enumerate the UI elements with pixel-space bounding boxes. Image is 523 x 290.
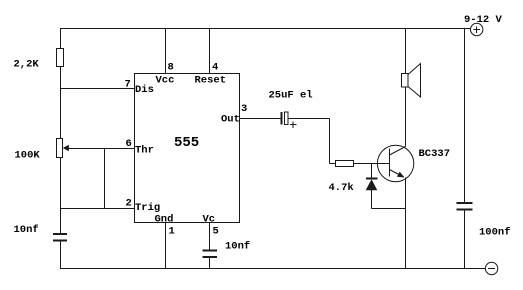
wire left rail R1 to pot xyxy=(60,67,62,139)
wire bottom ground rail xyxy=(60,268,485,270)
svg-text:7: 7 xyxy=(125,79,131,91)
svg-text:2: 2 xyxy=(126,198,132,210)
wire top supply rail xyxy=(60,28,471,30)
diode D1 triangle xyxy=(366,179,378,190)
svg-text:BC337: BC337 xyxy=(419,148,451,160)
wire pin1 Gnd to ground rail xyxy=(165,223,167,269)
wire left rail pot to C1 xyxy=(60,158,62,234)
wire R3 to base xyxy=(354,163,390,165)
svg-text:10nf: 10nf xyxy=(225,241,250,253)
potentiometer 100K wiper arrow xyxy=(63,145,69,152)
wire top rail to speaker xyxy=(405,29,407,74)
svg-text:Dis: Dis xyxy=(135,84,154,96)
svg-text:100nf: 100nf xyxy=(479,227,511,239)
wire link Thr to Trig xyxy=(104,149,106,209)
power terminal minus sign xyxy=(488,268,495,270)
wire C1 to ground rail xyxy=(60,241,62,269)
wire diode to emitter xyxy=(372,208,406,210)
svg-text:555: 555 xyxy=(174,135,199,151)
svg-text:100K: 100K xyxy=(15,150,41,162)
power terminal minus circle xyxy=(485,262,497,274)
transistor Q1 emitter diagonal xyxy=(390,170,404,178)
svg-text:Thr: Thr xyxy=(135,145,154,157)
diode D1 cathode bar xyxy=(366,178,378,180)
svg-text:4: 4 xyxy=(212,62,218,74)
capacitor 25uF plus sign xyxy=(290,121,297,128)
svg-text:6: 6 xyxy=(126,138,132,150)
svg-text:5: 5 xyxy=(213,226,219,238)
capacitor 100nf plate bottom xyxy=(457,209,473,211)
capacitor 100nf plate top xyxy=(457,202,473,204)
svg-text:Reset: Reset xyxy=(195,75,227,87)
capacitor 10nf (pin5) plate bottom xyxy=(203,256,218,258)
transistor Q1 emitter arrow xyxy=(397,172,405,178)
speaker body xyxy=(402,74,409,88)
potentiometer 100K body xyxy=(57,139,63,158)
svg-text:2,2K: 2,2K xyxy=(14,59,40,71)
wire pin2 Trig xyxy=(61,208,135,210)
svg-text:Gnd: Gnd xyxy=(155,214,174,226)
resistor 2,2K xyxy=(57,49,64,67)
wire right rail upper xyxy=(464,29,466,203)
svg-text:Vcc: Vcc xyxy=(156,75,175,87)
transistor Q1 collector diagonal xyxy=(390,147,406,156)
wire pin5 Vc to C2 xyxy=(209,223,211,251)
svg-text:25uF el: 25uF el xyxy=(269,90,313,102)
wire pin8 Vcc xyxy=(165,29,167,74)
svg-text:Vc: Vc xyxy=(203,214,216,226)
svg-text:1: 1 xyxy=(169,226,175,238)
transistor Q1 circle xyxy=(377,145,413,181)
svg-text:4.7k: 4.7k xyxy=(329,182,354,194)
wire wiper to pin6 Thr xyxy=(69,148,135,150)
wire collector up to speaker xyxy=(405,87,407,147)
wire pin4 Reset xyxy=(209,29,211,74)
capacitor 25uF plate left xyxy=(281,112,283,125)
transistor Q1 base bar xyxy=(389,149,391,177)
power terminal plus circle xyxy=(471,23,483,35)
wire emitter to ground rail xyxy=(405,178,407,269)
IC U1 555 timer body xyxy=(135,74,240,223)
power terminal plus sign xyxy=(474,26,481,33)
wire left rail segment above R1 xyxy=(60,29,62,49)
capacitor 10nf (timing) plate top xyxy=(53,233,67,235)
svg-text:3: 3 xyxy=(241,103,247,115)
diode D1 bottom wire xyxy=(371,190,373,209)
diode D1 anode wire xyxy=(371,164,373,179)
wire pin3 Out xyxy=(240,118,282,120)
capacitor 10nf (pin5) plate top xyxy=(203,250,218,252)
svg-text:10nf: 10nf xyxy=(14,224,39,236)
svg-text:Trig: Trig xyxy=(135,202,160,214)
wire pin7 Dis xyxy=(61,88,135,90)
svg-text:Out: Out xyxy=(221,114,240,126)
wire to R3 left xyxy=(330,163,336,165)
capacitor 10nf (timing) plate bottom xyxy=(53,240,67,242)
svg-text:8: 8 xyxy=(168,62,174,74)
resistor 4.7k xyxy=(336,161,354,167)
wire right rail lower xyxy=(464,210,466,269)
speaker cone xyxy=(408,64,421,98)
wire C2 to ground rail xyxy=(209,257,211,269)
capacitor 25uF plate right box xyxy=(285,112,289,125)
svg-text:9-12 V: 9-12 V xyxy=(464,14,503,26)
wire corner down to R3 xyxy=(329,119,331,164)
wire C3 to corner xyxy=(288,118,330,120)
